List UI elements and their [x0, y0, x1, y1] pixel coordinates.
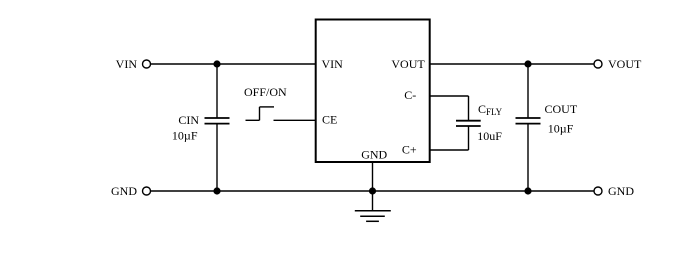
ground symbol: [355, 211, 391, 222]
svg-text:10uF: 10uF: [477, 129, 502, 143]
capacitor CFLY plates: [456, 121, 481, 126]
wire IC GND pin down to rail: [372, 162, 374, 191]
node GND left terminal circle: [143, 187, 151, 195]
junction dot GND rail / COUT: [524, 187, 531, 194]
op IC box U1: [316, 20, 430, 163]
junction dot VIN rail / CIN: [213, 60, 220, 67]
wire C- pin route: [431, 96, 469, 121]
svg-text:CIN: CIN: [178, 113, 199, 127]
svg-text:COUT: COUT: [545, 102, 578, 116]
svg-text:VOUT: VOUT: [391, 57, 425, 71]
wire bottom GND rail: [151, 190, 595, 192]
capacitor CIN plates: [205, 118, 230, 124]
node VOUT terminal circle: [594, 60, 602, 68]
OFF/ON step waveform symbol: [246, 107, 275, 120]
junction dot VOUT rail / COUT: [524, 60, 531, 67]
svg-text:CE: CE: [322, 113, 337, 127]
svg-text:10µF: 10µF: [172, 129, 198, 143]
wire VIN terminal to IC (top-left rail): [151, 63, 316, 65]
wire COUT top (junction to top plate): [527, 64, 529, 118]
svg-text:OFF/ON: OFF/ON: [244, 85, 287, 99]
svg-text:VIN: VIN: [322, 57, 344, 71]
wire CIN bottom (bottom plate to GND rail): [216, 124, 218, 191]
svg-text:C-: C-: [404, 88, 416, 102]
svg-text:GND: GND: [361, 148, 387, 162]
junction dot GND rail / IC GND: [369, 187, 376, 194]
wire CE input to IC: [274, 119, 316, 121]
svg-text:VIN: VIN: [116, 57, 138, 71]
svg-text:C+: C+: [402, 143, 417, 157]
wire VOUT rail (IC to VOUT terminal): [431, 63, 595, 65]
svg-text:GND: GND: [608, 184, 634, 198]
capacitor COUT plates: [516, 118, 541, 124]
wire ground stem: [372, 191, 374, 211]
node GND right terminal circle: [594, 187, 602, 195]
wire C+ pin route: [431, 126, 469, 150]
svg-text:VOUT: VOUT: [608, 57, 642, 71]
junction dot GND rail / CIN: [213, 187, 220, 194]
node VIN terminal circle: [143, 60, 151, 68]
svg-text:GND: GND: [111, 184, 137, 198]
wire CIN top (junction to top plate): [216, 64, 218, 118]
svg-text:10µF: 10µF: [548, 122, 574, 136]
wire COUT bottom (bottom plate to GND rail): [527, 124, 529, 191]
